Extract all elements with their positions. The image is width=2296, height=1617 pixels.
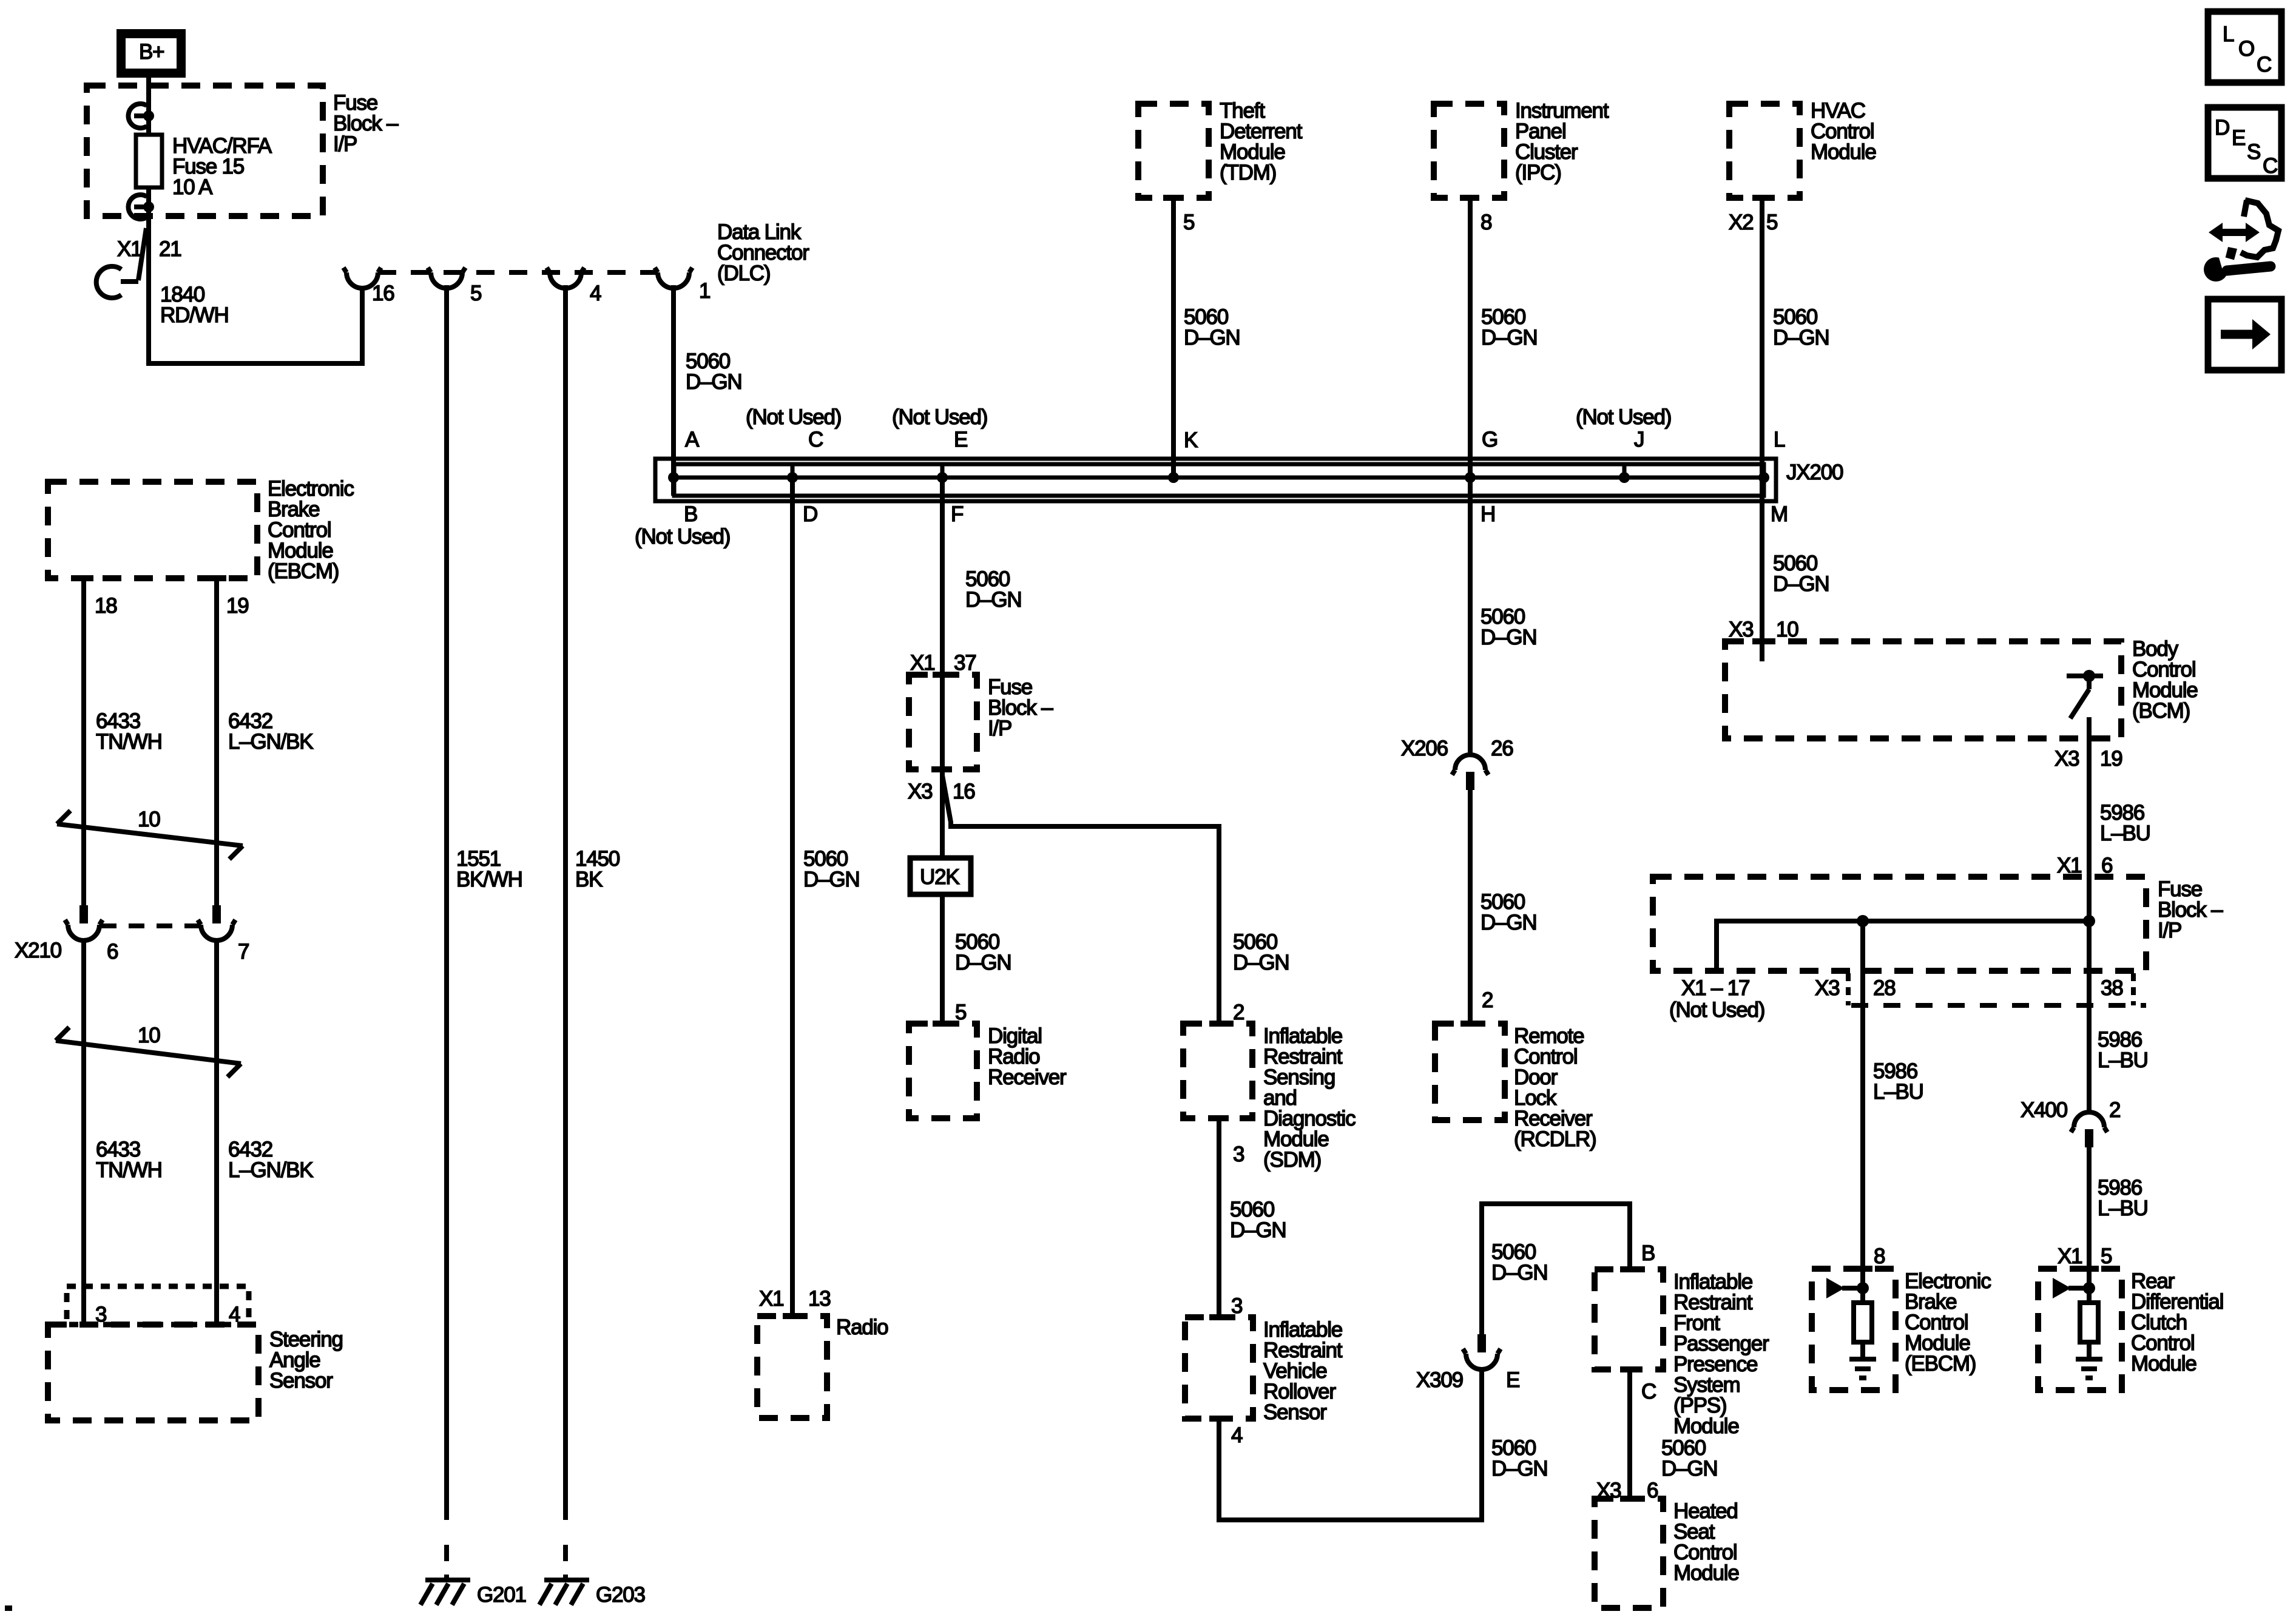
svg-text:D–GN: D–GN [1661,1457,1717,1480]
svg-text:TN/WH: TN/WH [96,1158,162,1182]
EBCM termination resistor [1854,1303,1872,1342]
BCM pin label X3 10 [1729,618,1798,641]
wire 5060 D-GN splice M down to BCM [1760,478,1764,661]
svg-text:B+: B+ [139,40,164,64]
wire label 5060 D-GN [1481,305,1537,349]
twisted pair marker 10 (upper) [57,808,243,859]
svg-text:38: 38 [2101,976,2123,1000]
wire label 5060 D-GN [1773,552,1829,596]
wire label 5060 D-GN [1661,1436,1717,1480]
wire PPS pin C to heated seat module [1627,1369,1632,1499]
svg-text:TN/WH: TN/WH [96,730,162,754]
svg-text:Sensor: Sensor [269,1369,333,1393]
terminal label E (not used) [892,405,987,451]
IPC pin tick [1460,195,1479,201]
svg-text:5: 5 [470,282,481,305]
svg-text:(BCM): (BCM) [2132,699,2190,723]
inline connector X309 pin E [1463,1334,1501,1369]
wire label 1450 BK [575,847,620,891]
PPS pin ticks [1620,1269,1639,1369]
wire 1840 RD/WH from fuse to DLC pin 16 [149,216,362,363]
SDM pin label 2 [1233,1001,1244,1024]
HVAC pin tick [1752,195,1772,201]
electronic brake control module (EBCM) box bottom right [1812,1269,1896,1390]
radio label [836,1315,888,1339]
wire label 5060 D-GN [1481,605,1536,649]
fuse block I/P (center) box [909,675,977,769]
fuse block center label [988,675,1053,740]
svg-text:28: 28 [1873,976,1896,1000]
svg-text:X3: X3 [2055,747,2079,771]
remote control door lock receiver (RCDLR) box [1435,1024,1505,1120]
wire through fuse block down to U2K [940,675,945,858]
pin label 26 [1491,737,1513,760]
svg-text:5: 5 [1766,211,1777,234]
svg-text:16: 16 [372,282,394,305]
svg-text:4: 4 [1231,1423,1243,1447]
svg-text:D–GN: D–GN [1491,1457,1547,1480]
RDCCM pin label X1 5 [2058,1244,2112,1268]
branch wire to SDM (slanted takeoff) [942,775,1219,1024]
steering angle sensor label [269,1328,343,1393]
fuse block pin ticks [933,675,952,769]
svg-text:7: 7 [238,940,249,964]
TDM pin label 5 [1183,211,1194,234]
svg-text:C: C [2263,154,2277,178]
node J stub [1622,464,1627,480]
wire dashed tail to G203 [563,1545,568,1580]
wire 6432 L-GN/BK lower [214,939,219,1325]
svg-text:(Not Used): (Not Used) [1576,405,1671,429]
svg-text:O: O [2238,37,2254,61]
inline connector X206 pin 26 [1452,755,1488,790]
svg-text:L–GN/BK: L–GN/BK [228,1158,313,1182]
EBCM pin label 18 [95,594,117,618]
svg-text:(EBCM): (EBCM) [268,559,339,583]
rollover sensor pin label 4 [1231,1423,1243,1447]
wire through fuse to block bottom [146,187,151,218]
svg-text:10: 10 [138,1024,160,1047]
SDM pin label 3 [1233,1143,1244,1166]
inflatable restraint front passenger presence system (PPS) module box [1595,1269,1663,1369]
pin label 7 [238,940,249,964]
HVAC pin label X2 5 [1729,211,1777,234]
legend LOC box [2208,12,2281,83]
svg-text:L–BU: L–BU [1873,1080,1923,1104]
svg-text:E: E [2232,126,2245,150]
JX200 label [1786,461,1843,484]
connector X1 pin 21 clip [96,228,146,298]
terminal label J (not used) [1576,405,1671,451]
battery feed B+ [121,34,181,73]
svg-text:Module: Module [1673,1414,1739,1438]
svg-text:3: 3 [1233,1143,1244,1166]
RDCCM label [2131,1269,2223,1376]
RDCCM internal termination arrow [2053,1278,2095,1298]
node E junction dot [937,472,948,483]
wire label 5060 D-GN (SDM feed) [1233,930,1289,974]
svg-text:37: 37 [954,651,976,675]
svg-text:H: H [1481,502,1495,526]
TDM pin tick [1163,195,1183,201]
HVAC control module box [1729,104,1800,198]
svg-text:X1: X1 [759,1287,783,1311]
PPS pin label C [1641,1380,1656,1403]
wire 5060 D-GN splice H down to X206 [1468,478,1473,756]
steering angle sensor pin 4 label [229,1303,240,1326]
fuse block I/P (right) box [1653,877,2146,971]
RDCCM termination resistor [2080,1303,2098,1342]
fuse value label [172,134,272,199]
inflatable restraint vehicle rollover sensor box [1185,1317,1253,1419]
svg-text:(EBCM): (EBCM) [1905,1352,1976,1376]
fuse block I/P label [333,91,399,156]
svg-text:I/P: I/P [2158,919,2181,942]
svg-text:C: C [808,428,823,451]
svg-text:J: J [1634,428,1644,451]
BCM exit label X3 19 [2055,747,2122,771]
svg-text:X2: X2 [1729,211,1753,234]
svg-text:L: L [1774,428,1785,451]
inflatable restraint sensing and diagnostic module (SDM) box [1183,1024,1252,1118]
svg-text:M: M [1771,502,1788,526]
svg-text:19: 19 [226,594,249,618]
svg-text:18: 18 [95,594,117,618]
wire from B+ into fuse block [146,72,151,137]
X210 harness dashed link [101,923,200,928]
svg-text:19: 19 [2100,747,2122,771]
DLC harness dashed link [378,270,658,275]
svg-text:G: G [1482,428,1497,451]
svg-text:D–GN: D–GN [1773,326,1829,349]
HVAC control module label [1811,99,1876,164]
ground label G201 [477,1583,526,1607]
IPC pin label 8 [1481,211,1491,234]
pin label 4 [590,282,601,305]
inline connector X400 pin 2 [2071,1112,2107,1147]
svg-text:8: 8 [1874,1244,1885,1268]
wire label 5060 D-GN [1773,305,1829,349]
legend diagnostic tool icon [2204,200,2278,282]
svg-text:I/P: I/P [988,717,1011,740]
pin label X1 21 [117,237,181,261]
svg-text:D–GN: D–GN [1233,951,1289,974]
EBCM bottom label [1905,1269,1991,1376]
svg-text:D–GN: D–GN [955,951,1011,974]
theft deterrent module (TDM) box [1138,104,1209,198]
wire label 5060 D-GN [1184,305,1240,349]
BCM internal switch [2067,670,2103,718]
wire dashed tail to G201 [444,1545,449,1580]
pin label 5 [470,282,481,305]
SDM pin ticks [1209,1024,1229,1118]
wire label 1551 BK/WH [456,847,522,891]
svg-text:F: F [951,502,963,526]
svg-text:Module: Module [1811,140,1876,164]
pin label 2 [2109,1098,2120,1122]
connector label X206 [1401,737,1448,760]
wire label 5986 L-BU [2098,1028,2148,1072]
svg-text:C: C [2257,53,2271,76]
node K junction dot [1168,472,1179,483]
wire 5060 D-GN splice F down to fuse block [940,478,945,675]
EBCM pin ticks [74,575,226,581]
RDCCM pin tick [2079,1266,2099,1272]
terminal label K [1184,428,1198,452]
svg-text:X1: X1 [910,651,934,675]
wire 5060 D-GN HVAC pin 5 to splice L [1760,198,1764,479]
svg-text:X1 – 17: X1 – 17 [1681,976,1749,1000]
splice pack JX200 outer body [655,459,1776,501]
terminal label B (not used) [635,502,730,549]
svg-text:8: 8 [1481,211,1491,234]
svg-text:(DLC): (DLC) [717,262,770,285]
svg-text:X309: X309 [1416,1368,1463,1392]
svg-text:X400: X400 [2021,1098,2068,1122]
DLC connector cup pin 4 [547,268,584,288]
terminal label C (not used) [746,405,841,451]
node A junction dot [668,472,679,483]
svg-text:D–GN: D–GN [686,370,741,394]
wire label 5060 D-GN [803,847,859,891]
ground G201 [420,1580,470,1605]
heated seat control module box [1595,1499,1663,1608]
wire label 1840 RD/WH [160,283,229,327]
wire 1551 BK/WH (DLC pin 5 to G201) [444,285,449,1520]
node X3-28 junction dot [1857,915,1869,927]
svg-text:G203: G203 [596,1583,645,1607]
svg-text:(SDM): (SDM) [1263,1148,1321,1172]
connector X3 dotted stub right [2131,973,2136,1005]
node J junction dot [1619,472,1630,483]
inline connector X210 pin 7 [198,905,235,940]
fuse block internal bus [1717,921,2089,971]
svg-text:D: D [803,502,817,526]
heated seat pin label X3 6 [1596,1479,1658,1502]
wire label 5060 D-GN [686,349,741,394]
svg-text:D–GN: D–GN [1184,326,1240,349]
wire label 5986 L-BU [2098,1176,2148,1220]
terminal label M [1771,502,1788,526]
radio pin tick [783,1313,802,1319]
svg-text:D–GN: D–GN [1773,572,1829,596]
svg-text:Receiver: Receiver [988,1065,1067,1089]
wire label 5060 D-GN (PPS feed) [1491,1240,1547,1284]
svg-text:10 A: 10 A [172,175,213,199]
splice pack JX200 inner body [674,464,1764,496]
EBCM internal ground [1849,1359,1876,1378]
svg-text:C: C [1641,1380,1656,1403]
connector X3 label [1815,976,1839,1000]
EBCM wire into resistor [1860,1269,1865,1303]
legend forward arrow box [2208,299,2281,370]
svg-text:B: B [1641,1241,1655,1265]
wire label 5060 D-GN [1481,890,1536,934]
wire X309 up and over to PPS pin B [1482,1204,1630,1335]
wire label 5060 D-GN (below X309) [1491,1436,1547,1480]
wire label 6432 L-GN/BK [228,709,313,754]
svg-text:Radio: Radio [836,1315,888,1339]
svg-text:2: 2 [2109,1098,2120,1122]
pin label 28 [1873,976,1896,1000]
svg-text:S: S [2247,140,2260,164]
wire 6432 L-GN/BK upper [214,578,219,905]
wire 5060 D-GN IPC pin 8 to splice G [1468,198,1473,479]
svg-text:D–GN: D–GN [965,588,1021,612]
connector X3 boundary dashed line [1851,1003,2146,1008]
body control module (BCM) box [1725,641,2121,738]
svg-text:A: A [685,428,700,451]
wire 5060 D-GN splice D to radio [790,478,795,1316]
wire label 5060 D-GN [955,930,1011,974]
svg-text:2: 2 [1482,988,1493,1012]
pin label 38 [2101,976,2123,1000]
fuse block exit label X1-17 not used [1669,976,1764,1022]
ground G203 [539,1580,589,1605]
node L/M junction dot [1758,472,1769,483]
terminal label A [685,428,700,451]
svg-text:L–BU: L–BU [2098,1048,2148,1072]
wire U2K to digital radio receiver [940,894,945,1024]
svg-text:D: D [2215,116,2229,140]
wire 5060 D-GN TDM pin 5 to splice K [1171,198,1176,479]
EBCM internal termination arrow [1826,1278,1869,1298]
steering angle sensor box [48,1325,258,1420]
node C/D stub [791,464,795,496]
pin label 6 [107,940,118,964]
svg-text:L–BU: L–BU [2098,1197,2148,1220]
steering angle sensor connector box [67,1286,249,1325]
wire 5986 L-BU fuse block pin 38 to X400 [2087,971,2092,1113]
wire BCM X3 19 down to fuse block [2087,717,2092,921]
svg-text:JX200: JX200 [1786,461,1843,484]
EBCM pin label 8 [1874,1244,1885,1268]
svg-text:E: E [1506,1368,1519,1392]
wire label 5060 D-GN [1230,1198,1286,1242]
node C junction dot [787,472,798,483]
SDM label [1263,1024,1356,1172]
svg-text:2: 2 [1233,1001,1244,1024]
pin label 16 [372,282,394,305]
svg-text:(IPC): (IPC) [1515,161,1561,184]
fuse clip upper [128,104,154,128]
RDCCM resistor to ground wire [2087,1342,2092,1358]
svg-text:G201: G201 [477,1583,526,1607]
wire 6433 TN/WH lower [81,939,86,1325]
svg-text:I/P: I/P [333,132,357,156]
svg-text:Module: Module [1673,1561,1739,1585]
fuse block pin label X1 37 [910,651,976,675]
pin label E [1506,1368,1519,1392]
rollover sensor label [1263,1318,1343,1424]
twisted pair marker 10 (lower) [56,1024,241,1077]
svg-text:D–GN: D–GN [1481,911,1536,934]
svg-text:26: 26 [1491,737,1513,760]
svg-text:X3: X3 [1729,618,1753,641]
BCM pin ticks [1752,641,2110,738]
svg-text:21: 21 [159,237,181,261]
svg-text:16: 16 [953,780,975,803]
svg-text:L: L [2223,22,2234,46]
wire label 6433 TN/WH [96,709,162,754]
heated seat pin tick [1620,1496,1639,1502]
RDCCM internal ground [2076,1359,2102,1378]
EBCM resistor to ground wire [1860,1342,1865,1358]
fuse block entry label X1 6 [2057,854,2112,877]
svg-text:(TDM): (TDM) [1220,161,1276,184]
svg-text:Sensor: Sensor [1263,1400,1327,1424]
connector label X210 [15,939,62,962]
svg-text:D–GN: D–GN [803,868,859,891]
svg-text:(Not Used): (Not Used) [746,405,841,429]
wire label 5060 D-GN [965,567,1021,612]
fuse block right label [2158,877,2223,942]
wire label 6433 TN/WH [96,1138,162,1182]
svg-text:D–GN: D–GN [1491,1261,1547,1284]
svg-text:(Not Used): (Not Used) [1669,998,1764,1022]
DRR pin label 5 [955,1001,966,1024]
terminal label H [1481,502,1495,526]
wire 6433 TN/WH upper [81,578,86,905]
RCDLR pin label 2 [1482,988,1493,1012]
PPS pin label B [1641,1241,1655,1265]
svg-text:U2K: U2K [920,865,959,889]
DLC connector cup pin 5 [428,268,465,288]
svg-text:4: 4 [590,282,601,305]
digital radio receiver box [909,1024,977,1118]
svg-text:L–BU: L–BU [2100,822,2150,845]
BCM label [2132,637,2198,723]
connector X3 dotted stub left [1846,973,1851,1005]
node 38 junction dot [2083,915,2095,927]
EBCM pin label 19 [226,594,249,618]
fuse block exit label X3 16 [908,780,975,803]
inline connector X210 pin 6 [65,905,103,940]
svg-text:BK/WH: BK/WH [456,868,522,891]
svg-text:K: K [1184,428,1198,452]
svg-text:(Not Used): (Not Used) [635,525,730,549]
ground label G203 [596,1583,645,1607]
svg-text:Module: Module [2131,1352,2196,1376]
pin label 1 [699,279,710,303]
RCDLR label [1514,1024,1596,1151]
legend DESC box [2208,107,2281,178]
svg-text:X206: X206 [1401,737,1448,760]
svg-text:D–GN: D–GN [1481,326,1537,349]
digital radio receiver label [988,1024,1067,1089]
electronic brake control module (EBCM) box top-left [48,482,257,578]
RCDLR pin tick [1460,1021,1480,1027]
wire 1450 BK (DLC pin 4 to G203) [563,285,568,1520]
svg-text:L–GN/BK: L–GN/BK [228,730,313,754]
DLC connector cup pin 1 [655,268,692,288]
DRR pin tick [933,1021,952,1027]
svg-text:X3: X3 [1815,976,1839,1000]
svg-text:5: 5 [2101,1244,2112,1268]
wire rollover sensor pin 4 to X309 [1219,1368,1482,1520]
terminal label G [1482,428,1497,451]
wire X206 to RCDLR [1468,790,1473,1024]
heated seat control module label [1673,1499,1739,1585]
svg-text:X1: X1 [2058,1244,2082,1268]
EBCM label [268,477,354,583]
wire label 5986 L-BU [2100,801,2150,845]
svg-text:X1: X1 [117,237,141,261]
node G/H junction dot [1465,472,1476,483]
instrument panel cluster (IPC) box [1434,104,1504,198]
fuse clip lower [128,195,154,219]
svg-text:10: 10 [138,808,160,831]
